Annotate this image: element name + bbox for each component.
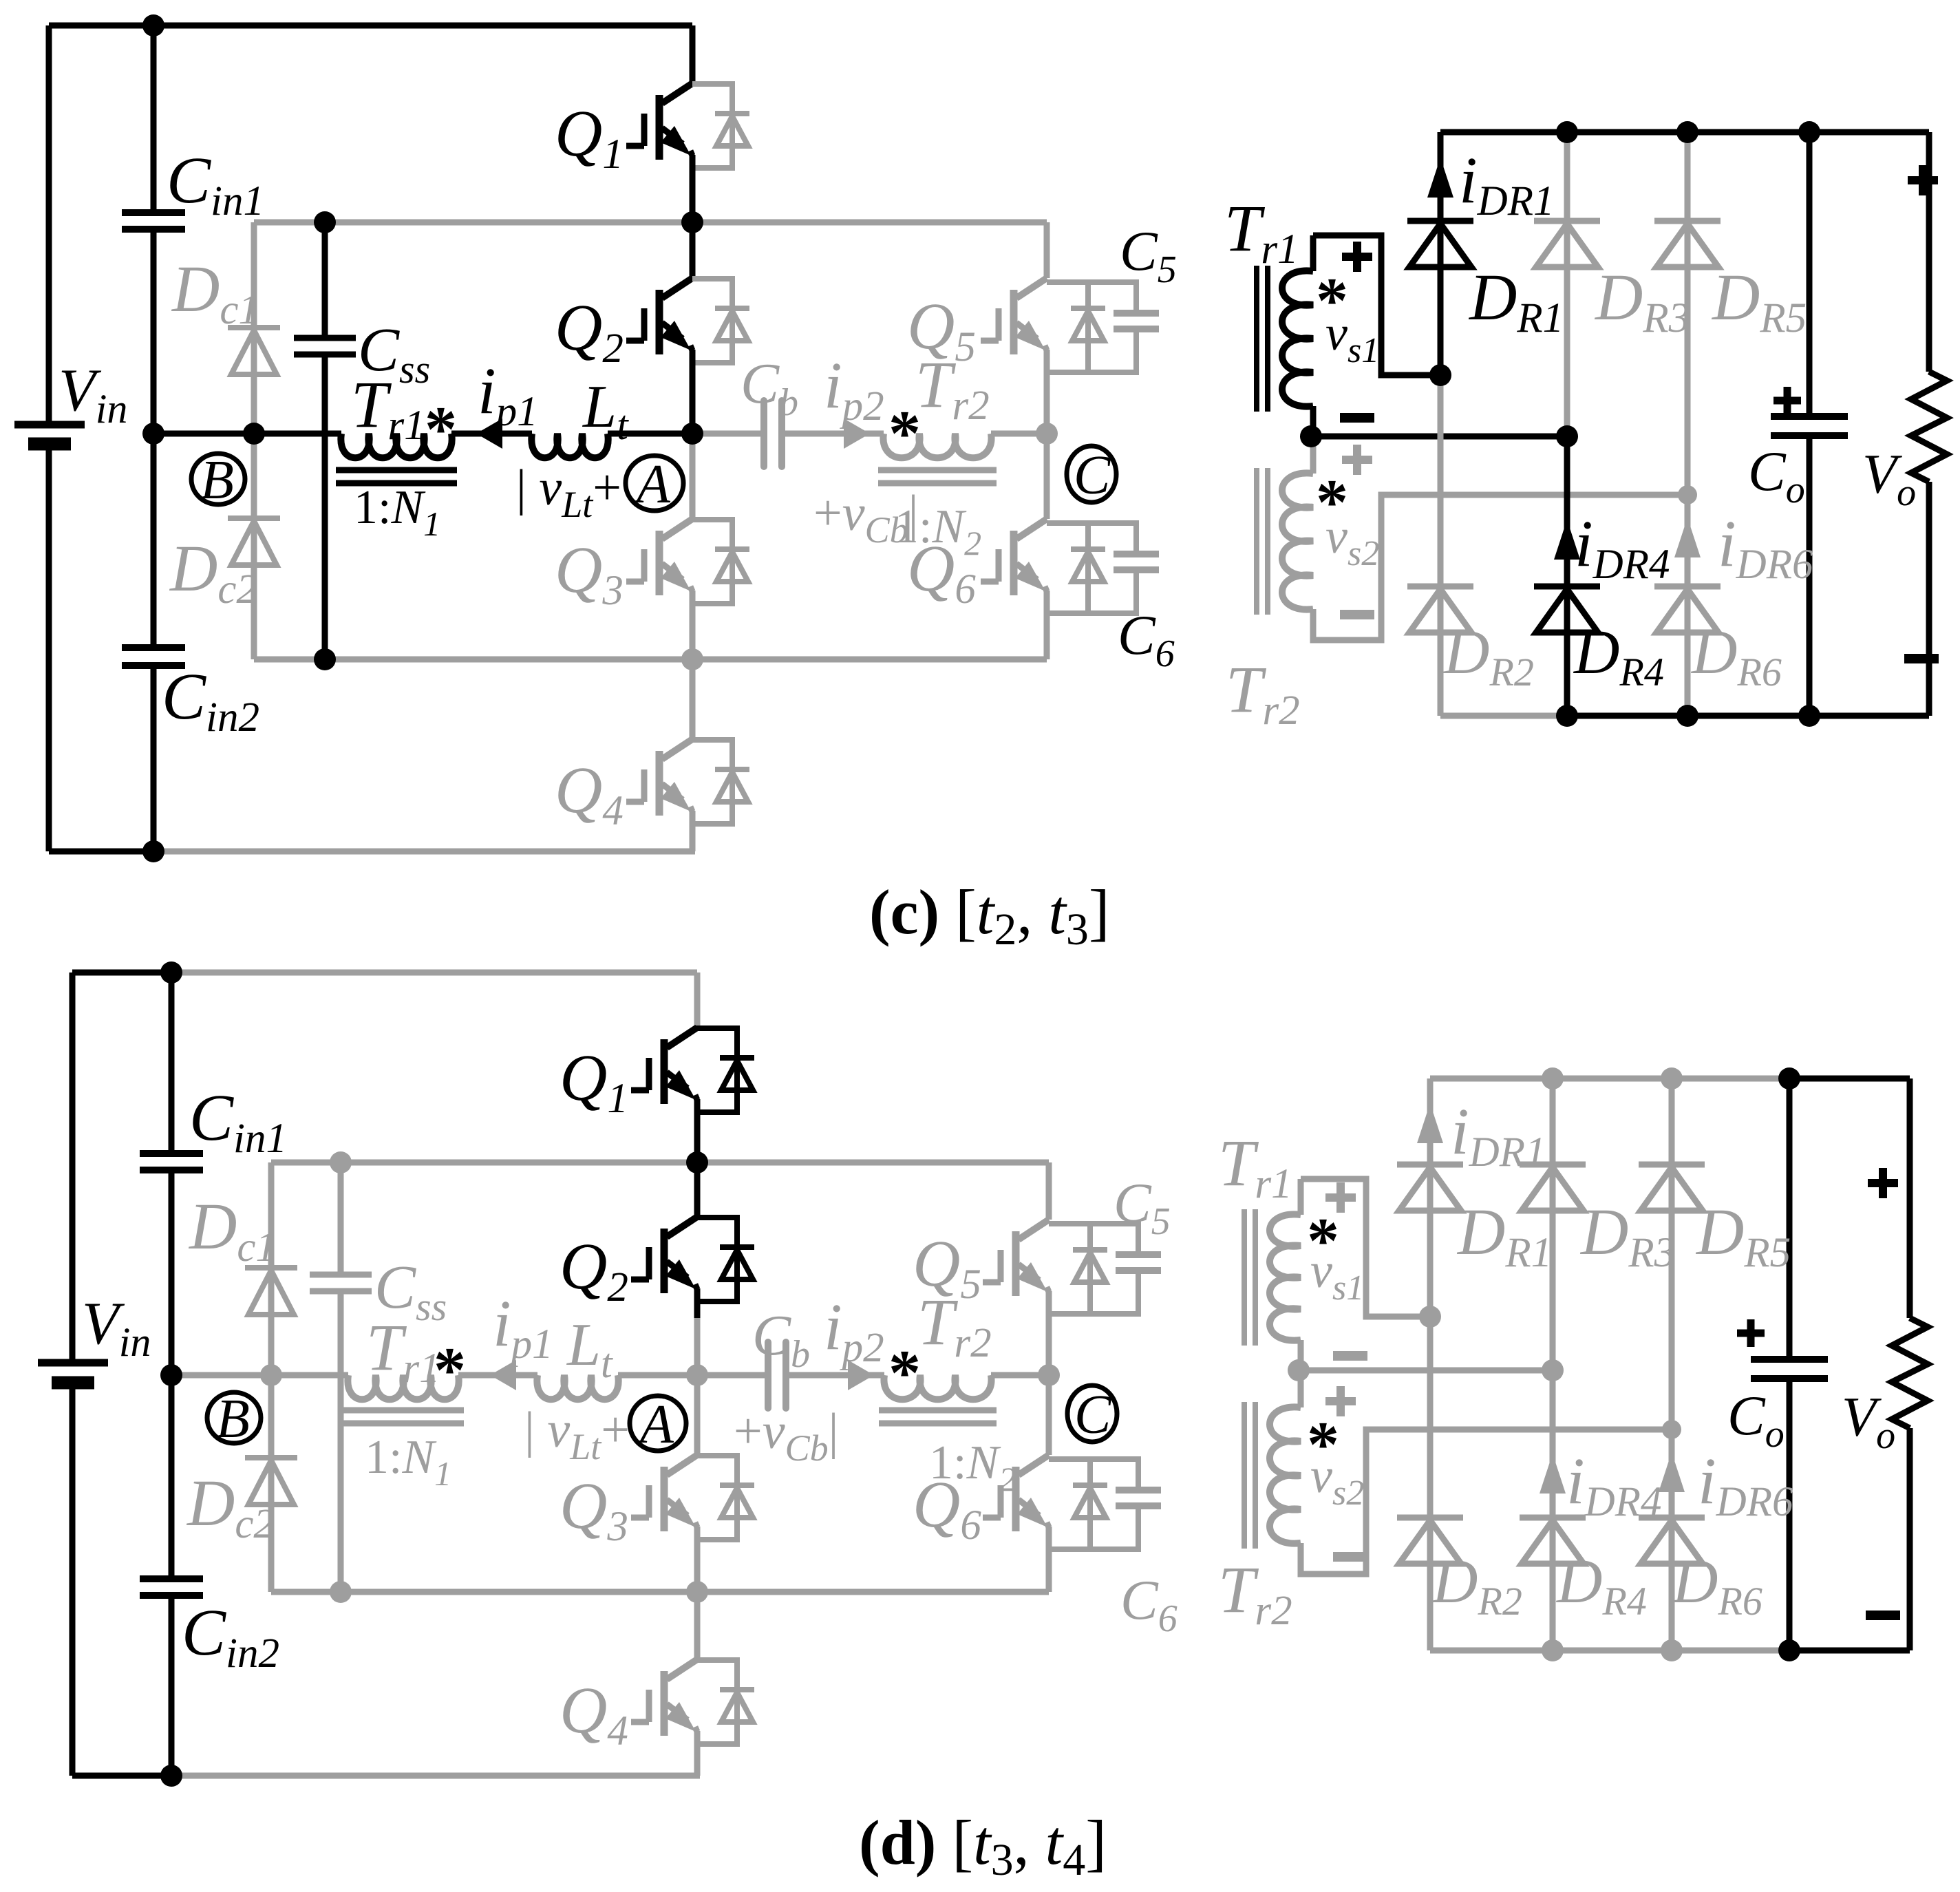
svg-text:*: * [1316, 265, 1348, 337]
svg-text:*: * [1307, 1409, 1339, 1480]
svg-text:A: A [633, 454, 671, 515]
svg-text:*: * [425, 394, 457, 465]
svg-text:*: * [434, 1335, 466, 1406]
svg-text:*: * [1316, 467, 1348, 538]
svg-text:*: * [888, 398, 921, 469]
svg-text:*: * [888, 1337, 921, 1409]
svg-text:C: C [1074, 1385, 1112, 1445]
svg-text:B: B [216, 1389, 250, 1449]
svg-text:B: B [200, 450, 234, 511]
svg-text:*: * [1307, 1205, 1339, 1277]
svg-text:A: A [637, 1394, 674, 1455]
svg-text:C: C [1074, 445, 1111, 506]
